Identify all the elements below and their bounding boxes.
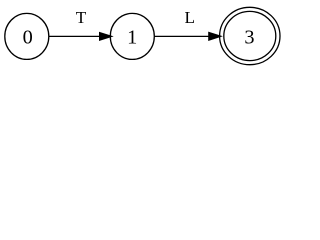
svg-text:3: 3 [244, 27, 254, 49]
arrowhead edge 0->1 [100, 32, 113, 40]
arrowhead edge 1->3 [209, 32, 222, 40]
svg-text:L: L [185, 8, 196, 27]
edge 1->3 wire [154, 35, 209, 37]
edge 0->1 wire [49, 35, 100, 37]
state 0 [5, 13, 49, 59]
state 1 [110, 13, 154, 59]
edge label T [76, 8, 87, 27]
state 3 (accepting, double circle) [220, 7, 280, 64]
svg-text:T: T [76, 8, 87, 27]
edge label L [185, 8, 196, 27]
svg-text:1: 1 [127, 27, 137, 49]
svg-text:0: 0 [23, 27, 33, 49]
